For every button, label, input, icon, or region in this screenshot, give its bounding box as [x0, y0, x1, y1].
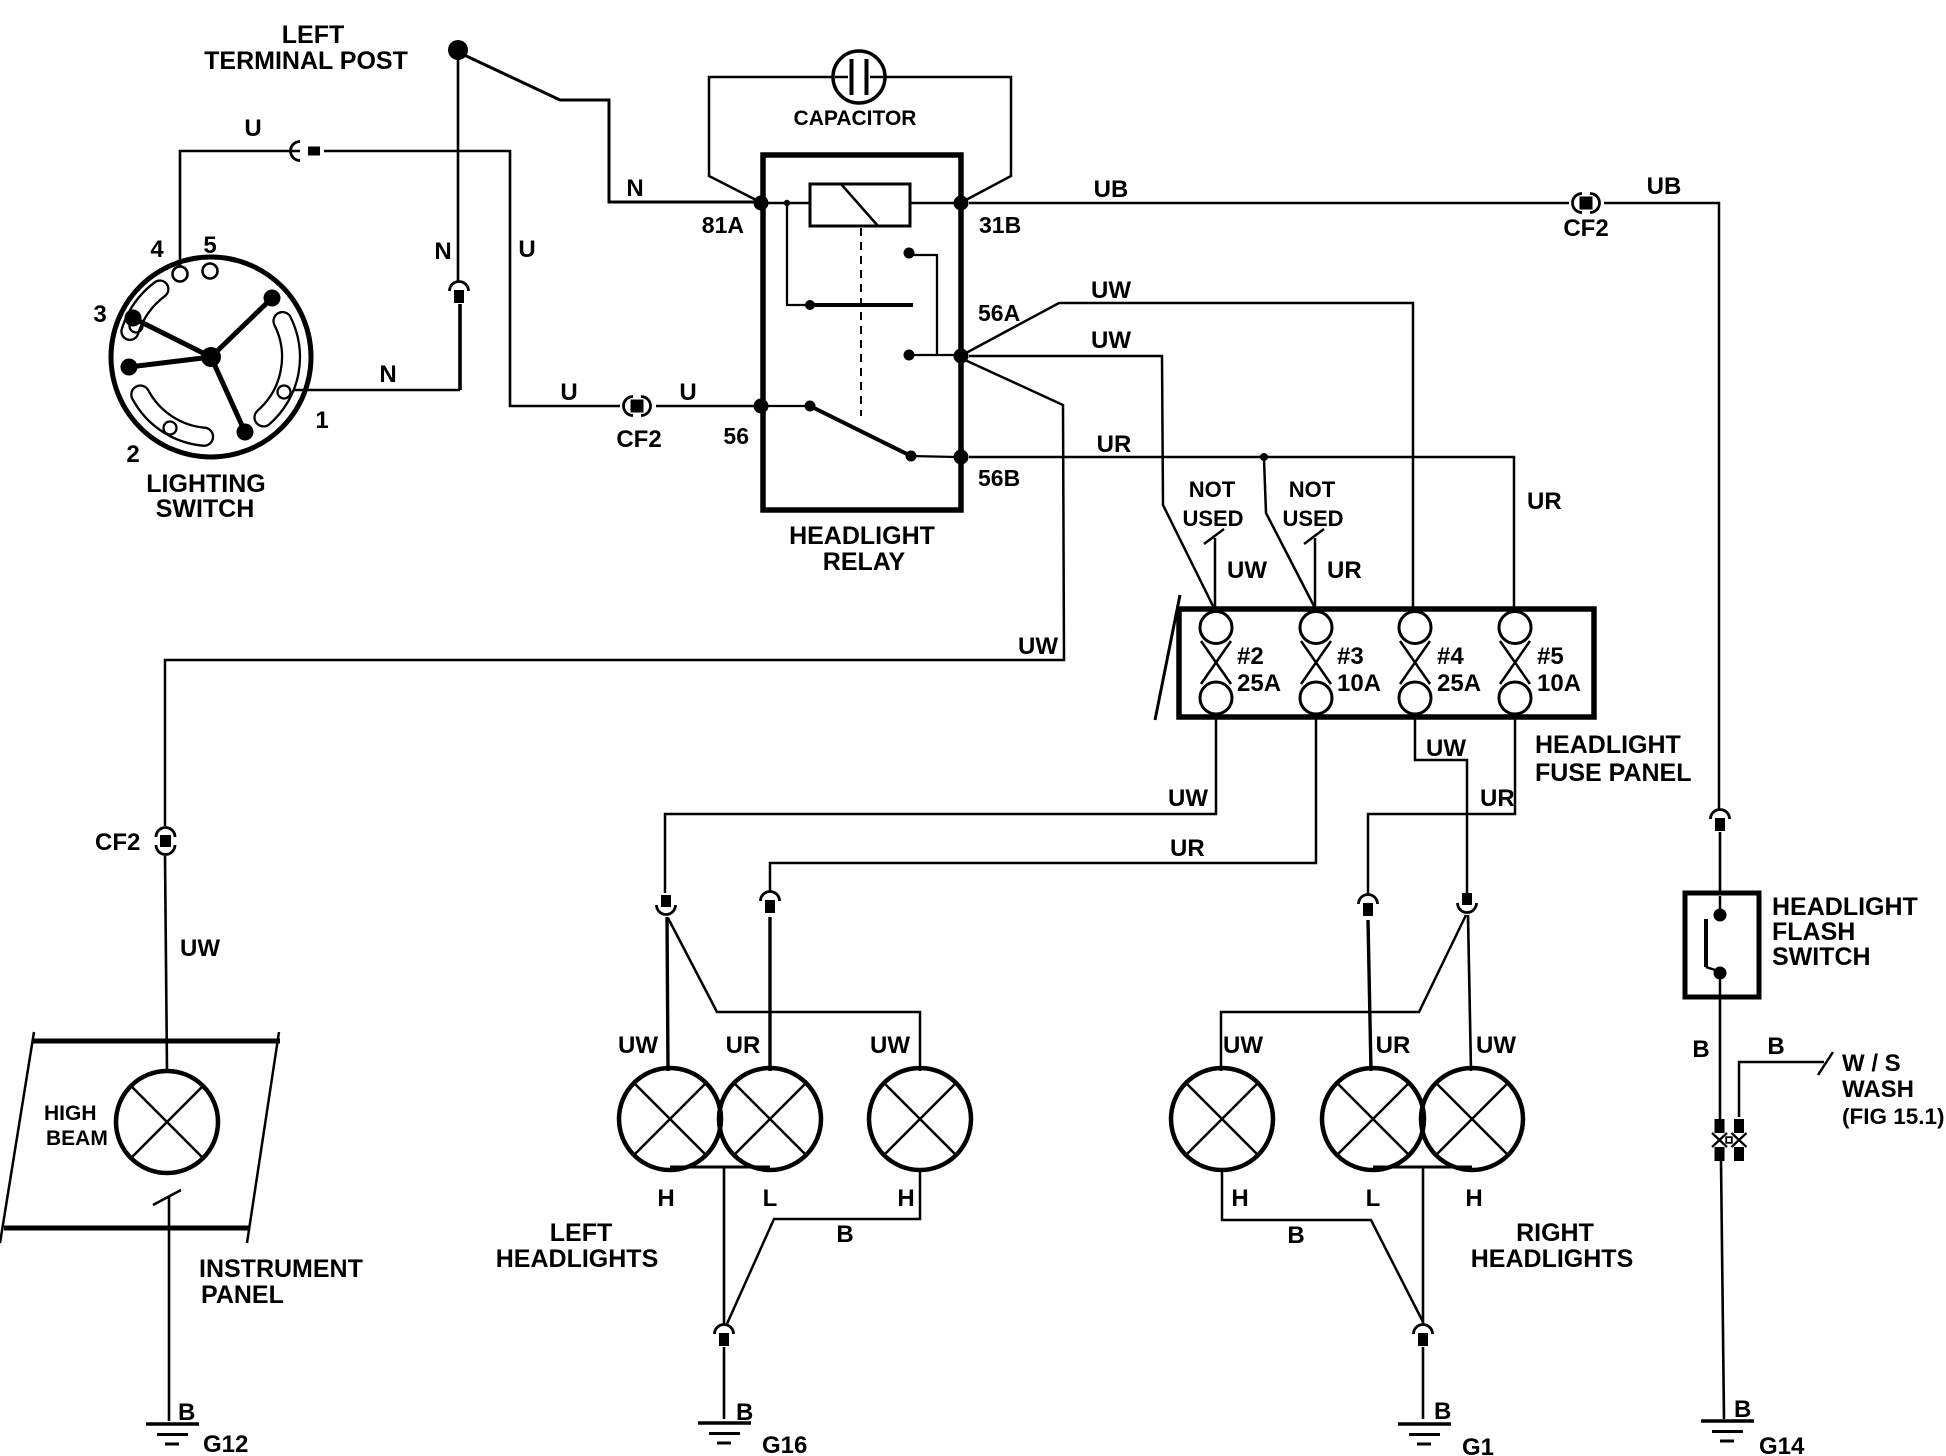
label: RIGHT HEADLIGHTS	[1471, 1219, 1634, 1273]
svg-text:H: H	[657, 1185, 674, 1212]
right headlight H lamp	[1171, 1068, 1273, 1170]
svg-text:#3: #3	[1337, 643, 1364, 670]
right headlight L lamp	[1322, 1068, 1424, 1170]
svg-text:25A: 25A	[1437, 670, 1481, 697]
svg-text:SWITCH: SWITCH	[156, 495, 255, 523]
lighting switch slot upper-left	[121, 281, 168, 340]
svg-text:56: 56	[723, 423, 749, 449]
right headlight inner H lamp	[1421, 1068, 1523, 1170]
svg-text:#5: #5	[1537, 643, 1564, 670]
left headlight middle H lamp	[869, 1068, 971, 1170]
svg-text:CF2: CF2	[616, 426, 661, 453]
connector CF2 on wire U	[624, 397, 634, 416]
arrow to W/S wash	[1818, 1052, 1833, 1075]
svg-text:H: H	[1465, 1185, 1482, 1212]
svg-text:H: H	[897, 1185, 914, 1212]
svg-text:FLASH: FLASH	[1772, 918, 1855, 946]
svg-text:LEFT: LEFT	[282, 21, 345, 49]
relay upper fixed contact	[904, 248, 956, 361]
lighting switch terminal 5	[203, 264, 218, 279]
svg-text:LEFT: LEFT	[550, 1219, 613, 1247]
svg-text:SWITCH: SWITCH	[1772, 943, 1871, 971]
svg-text:UR: UR	[726, 1032, 761, 1059]
svg-text:UR: UR	[1097, 431, 1132, 458]
label: HEADLIGHT FUSE PANEL	[1535, 731, 1692, 787]
not used stub at fuse #3	[1304, 529, 1324, 609]
svg-text:G14: G14	[1759, 1433, 1805, 1456]
svg-text:56B: 56B	[978, 465, 1020, 491]
wire UR: relay 56B to fuse #5	[969, 457, 1514, 610]
svg-text:UW: UW	[1091, 277, 1131, 304]
wire B: high beam lamp to ground G12	[168, 1197, 171, 1421]
wire UW branch to right-inner H lamp	[1468, 915, 1471, 1071]
relay lower switch	[768, 401, 955, 462]
svg-text:RIGHT: RIGHT	[1516, 1219, 1594, 1247]
svg-text:81A: 81A	[702, 212, 744, 238]
inline connector above G1	[1414, 1325, 1433, 1335]
svg-text:31B: 31B	[979, 212, 1021, 238]
svg-text:HEADLIGHT: HEADLIGHT	[1535, 731, 1681, 759]
svg-text:U: U	[560, 379, 577, 406]
svg-text:UW: UW	[1426, 735, 1466, 762]
svg-text:B: B	[178, 1399, 195, 1426]
svg-text:UR: UR	[1327, 557, 1362, 584]
inline connector on wire U	[291, 142, 301, 161]
inline connector on left UR	[761, 892, 780, 901]
svg-text:B: B	[1767, 1033, 1784, 1060]
svg-text:U: U	[244, 115, 261, 142]
wire UW: relay 56A to fuse #2	[969, 356, 1214, 608]
svg-text:W / S: W / S	[1842, 1050, 1901, 1077]
wire UW: relay 56A to fuse #4	[966, 303, 1413, 610]
svg-text:B: B	[1692, 1036, 1709, 1063]
headlight fuse panel body	[1179, 609, 1594, 717]
svg-text:B: B	[836, 1221, 853, 1248]
svg-text:L: L	[1366, 1185, 1381, 1212]
wire B: right headlights to ground G1	[1222, 1167, 1472, 1324]
label #2 25A	[1237, 643, 1281, 697]
ground G16	[698, 1421, 751, 1425]
wire: capacitor left lead to 81A	[709, 77, 834, 201]
svg-text:G1: G1	[1462, 1434, 1494, 1456]
svg-text:B: B	[1734, 1396, 1751, 1423]
svg-text:UW: UW	[870, 1032, 910, 1059]
fuse panel left edge slant	[1155, 595, 1180, 720]
wire N: terminal post to lighting switch terminal 1	[293, 56, 460, 390]
fuse #2	[1200, 612, 1232, 644]
wire UW branch to middle H lamp	[668, 918, 920, 1071]
relay armature link (dashed)	[860, 228, 862, 416]
relay junction 56B	[954, 450, 969, 465]
fuse #3	[1300, 612, 1332, 644]
svg-text:UW: UW	[1168, 785, 1208, 812]
svg-text:#2: #2	[1237, 643, 1264, 670]
label: LIGHTING SWITCH	[146, 470, 265, 523]
lighting switch slot right	[255, 312, 301, 426]
wire UW: relay 56A to instrument panel	[165, 360, 1064, 1071]
svg-text:B: B	[1287, 1222, 1304, 1249]
left terminal post	[448, 40, 468, 60]
svg-text:25A: 25A	[1237, 670, 1281, 697]
svg-text:HEADLIGHTS: HEADLIGHTS	[496, 1245, 659, 1273]
relay internal wire 81A to coil	[768, 202, 810, 205]
relay junction 81A	[754, 196, 769, 211]
capacitor	[833, 51, 885, 103]
wire UB: relay 31B to headlight flash switch	[969, 203, 1719, 809]
svg-text:UR: UR	[1527, 488, 1562, 515]
svg-text:10A: 10A	[1337, 670, 1381, 697]
svg-text:#4: #4	[1437, 643, 1464, 670]
lighting switch body	[111, 257, 311, 457]
svg-text:L: L	[763, 1185, 778, 1212]
label #3 10A	[1337, 643, 1381, 697]
wire B: flash switch to inline connector	[1719, 997, 1722, 1119]
svg-text:3: 3	[93, 301, 106, 328]
wire B: left headlights to ground G16	[670, 1167, 920, 1326]
svg-text:BEAM: BEAM	[46, 1127, 108, 1150]
svg-text:UW: UW	[180, 935, 220, 962]
svg-text:G12: G12	[203, 1431, 248, 1456]
instrument panel outline	[0, 1032, 280, 1243]
svg-text:LIGHTING: LIGHTING	[146, 470, 265, 498]
ground G12	[146, 1422, 199, 1426]
svg-text:HEADLIGHT: HEADLIGHT	[789, 522, 935, 550]
label: NOT USED	[1282, 477, 1343, 531]
svg-text:INSTRUMENT: INSTRUMENT	[199, 1255, 363, 1283]
svg-text:UW: UW	[1223, 1032, 1263, 1059]
svg-text:UW: UW	[1476, 1032, 1516, 1059]
svg-text:N: N	[379, 361, 396, 388]
svg-text:CF2: CF2	[1563, 215, 1608, 242]
wire N: terminal post to relay terminal 81A	[462, 54, 755, 202]
svg-text:UW: UW	[1227, 557, 1267, 584]
lighting switch slot contact circles	[130, 320, 291, 435]
wire UW branch to left H lamp	[667, 917, 668, 1071]
label: INSTRUMENT PANEL	[199, 1255, 363, 1309]
arrow tick on instrument wire	[153, 1190, 181, 1205]
svg-text:56A: 56A	[978, 300, 1020, 326]
label: HEADLIGHT FLASH SWITCH	[1772, 893, 1918, 971]
inline connector on left UW	[661, 895, 671, 907]
wire UR to right L lamp	[1368, 920, 1371, 1071]
wire U: lighting switch terminal 4 to relay terminal 56	[180, 151, 755, 406]
svg-text:HEADLIGHT: HEADLIGHT	[1772, 893, 1918, 921]
svg-text:USED: USED	[1182, 506, 1243, 531]
svg-text:U: U	[679, 379, 696, 406]
inline connector above G16	[715, 1325, 734, 1335]
svg-text:B: B	[1434, 1398, 1451, 1425]
svg-text:N: N	[434, 238, 451, 265]
relay junction 31B	[954, 196, 969, 211]
svg-text:UR: UR	[1480, 785, 1515, 812]
svg-text:UB: UB	[1647, 173, 1682, 200]
lighting switch terminal 4	[173, 267, 188, 282]
wire UR: fuse #3 to left low beam	[770, 716, 1316, 891]
label: HEADLIGHT RELAY	[789, 522, 935, 576]
inline connector on right UW	[1462, 893, 1472, 905]
wire UW branch to right-outer H lamp	[1221, 915, 1466, 1071]
svg-text:CAPACITOR: CAPACITOR	[794, 107, 917, 130]
svg-text:(FIG 15.1): (FIG 15.1)	[1842, 1104, 1945, 1129]
svg-text:WASH: WASH	[1842, 1076, 1914, 1103]
high beam indicator lamp	[116, 1071, 218, 1173]
headlight flash switch body	[1685, 893, 1759, 997]
inline connector pair above G14	[1712, 1119, 1747, 1161]
relay junction 56A	[954, 349, 969, 364]
inline connector on right UR	[1359, 895, 1378, 905]
svg-text:2: 2	[126, 441, 139, 468]
label: LEFT TERMINAL POST	[204, 21, 408, 75]
wire B: connector to W/S wash	[1739, 1062, 1824, 1117]
svg-text:PANEL: PANEL	[201, 1281, 284, 1309]
inline connector above flash switch	[1711, 810, 1730, 820]
svg-text:CF2: CF2	[95, 829, 140, 856]
headlight relay body	[763, 155, 961, 510]
svg-text:HEADLIGHTS: HEADLIGHTS	[1471, 1245, 1634, 1273]
connector CF2 on wire UB	[1573, 194, 1583, 213]
left headlight L lamp	[719, 1068, 821, 1170]
not used stub at fuse #2	[1204, 529, 1224, 609]
wire: capacitor right lead to 31B	[884, 77, 1011, 201]
label: HIGH BEAM	[44, 1102, 108, 1150]
svg-text:U: U	[518, 236, 535, 263]
wire UW: fuse #2 to left headlights	[665, 716, 1216, 893]
svg-text:NOT: NOT	[1189, 477, 1236, 502]
svg-text:5: 5	[203, 232, 216, 259]
wire UW: fuse #4 to right headlights	[1415, 716, 1467, 893]
inline connector on wire N	[450, 282, 469, 292]
connector CF2 on instrument wire	[156, 828, 175, 838]
wire UR to L lamp	[768, 917, 771, 1071]
svg-text:UW: UW	[1018, 633, 1058, 660]
label: W/S WASH (FIG 15.1)	[1842, 1050, 1945, 1129]
svg-text:H: H	[1231, 1185, 1248, 1212]
svg-text:1: 1	[315, 407, 328, 434]
fuse #4	[1399, 612, 1431, 644]
svg-text:HIGH: HIGH	[44, 1102, 97, 1125]
left headlight H lamp	[619, 1068, 721, 1170]
lighting switch slot bottom	[131, 386, 213, 446]
svg-text:RELAY: RELAY	[823, 548, 906, 576]
junction on wire UR	[1260, 453, 1268, 461]
fuse #5	[1499, 612, 1531, 644]
svg-text:UR: UR	[1170, 835, 1205, 862]
svg-text:UB: UB	[1094, 176, 1129, 203]
ground G14	[1701, 1419, 1754, 1423]
lighting switch wiper spokes	[121, 290, 281, 441]
svg-text:FUSE PANEL: FUSE PANEL	[1535, 759, 1692, 787]
svg-text:TERMINAL POST: TERMINAL POST	[204, 47, 408, 75]
relay coil	[810, 184, 910, 226]
wire UR: fuse #5 to right low beam	[1368, 716, 1515, 894]
svg-text:NOT: NOT	[1289, 477, 1336, 502]
label #4 25A	[1437, 643, 1481, 697]
label: NOT USED	[1182, 477, 1243, 531]
relay upper contact arm	[784, 200, 913, 310]
ground G1	[1398, 1422, 1451, 1426]
label: LEFT HEADLIGHTS	[496, 1219, 659, 1273]
svg-text:G16: G16	[762, 1432, 807, 1456]
relay internal wire coil to 31B	[910, 202, 955, 205]
flash switch contacts	[1706, 896, 1727, 995]
svg-text:UW: UW	[618, 1032, 658, 1059]
svg-text:USED: USED	[1282, 506, 1343, 531]
svg-text:4: 4	[150, 236, 164, 263]
wire UR: junction to fuse #3	[1264, 459, 1315, 608]
label #5 10A	[1537, 643, 1581, 697]
svg-text:UR: UR	[1376, 1032, 1411, 1059]
svg-text:UW: UW	[1091, 327, 1131, 354]
wire B: connector to ground G14	[1721, 1161, 1724, 1419]
svg-text:N: N	[626, 175, 643, 202]
relay junction 56	[754, 399, 769, 414]
svg-text:10A: 10A	[1537, 670, 1581, 697]
